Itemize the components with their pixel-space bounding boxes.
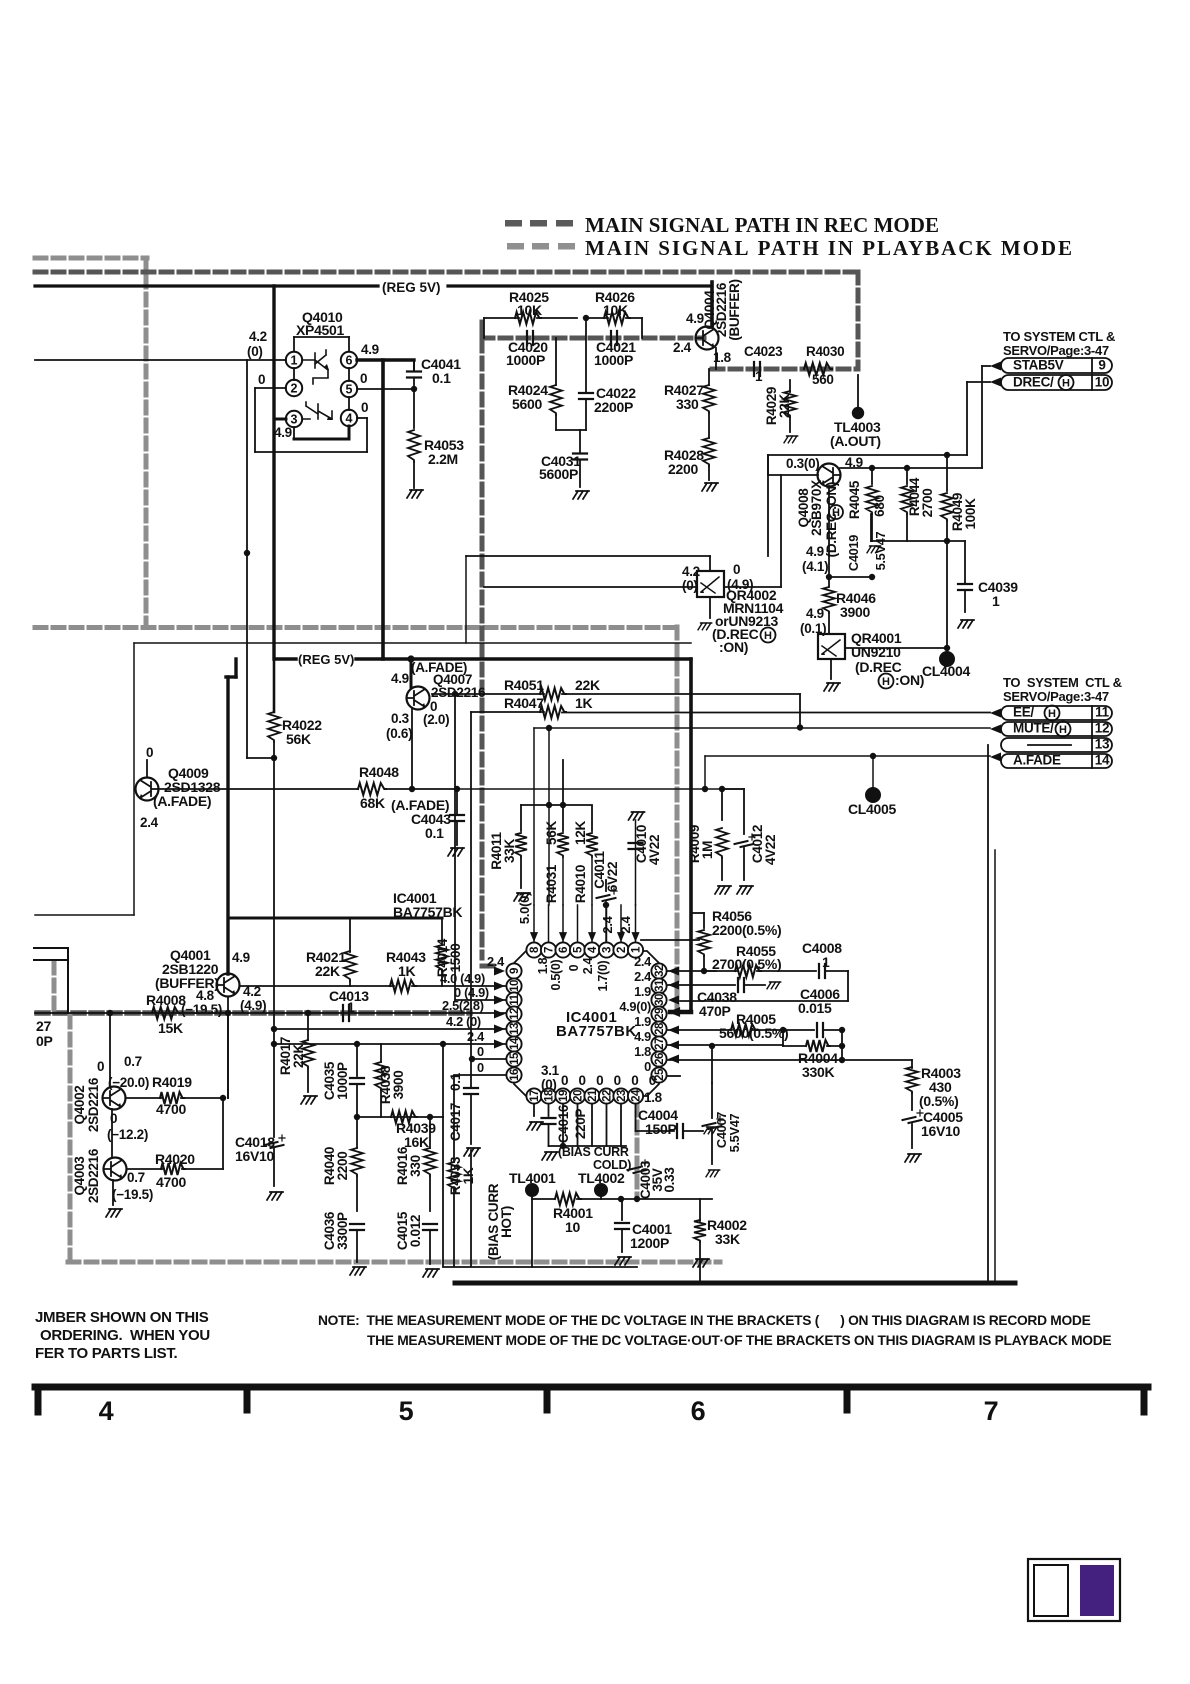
svg-text:5600P: 5600P <box>539 466 578 482</box>
svg-text:22: 22 <box>601 1090 613 1102</box>
svg-text:1: 1 <box>822 954 830 970</box>
svg-text:0.5(0): 0.5(0) <box>549 959 563 990</box>
svg-text:0.1: 0.1 <box>432 370 451 386</box>
svg-text:56K: 56K <box>286 731 311 747</box>
svg-text:330: 330 <box>408 1155 423 1177</box>
svg-text:1.8: 1.8 <box>634 1044 651 1059</box>
svg-text:C4019: C4019 <box>846 535 861 571</box>
svg-text:MUTE/: MUTE/ <box>1013 721 1054 736</box>
svg-text:12: 12 <box>509 1008 521 1020</box>
svg-text:28: 28 <box>654 1022 666 1035</box>
svg-text:3.1: 3.1 <box>541 1063 560 1078</box>
svg-text:14: 14 <box>1095 753 1110 768</box>
svg-text:0: 0 <box>110 1111 117 1126</box>
svg-text:330K: 330K <box>802 1064 834 1080</box>
svg-text:33K: 33K <box>715 1231 740 1247</box>
svg-text:ORDERING. WHEN YOU: ORDERING. WHEN YOU <box>40 1327 210 1344</box>
svg-text:330: 330 <box>676 396 699 412</box>
svg-text:0: 0 <box>258 372 265 387</box>
svg-text:11: 11 <box>509 993 521 1005</box>
svg-text:4.2 (0): 4.2 (0) <box>446 1014 481 1029</box>
svg-text:4V22: 4V22 <box>647 835 662 865</box>
svg-text:H: H <box>1062 378 1070 390</box>
svg-text:6: 6 <box>558 947 570 953</box>
svg-text:0: 0 <box>567 964 581 971</box>
svg-text:0: 0 <box>477 1044 484 1059</box>
svg-text:7: 7 <box>543 947 555 953</box>
svg-text:4.9: 4.9 <box>361 342 379 357</box>
svg-text:10: 10 <box>1095 375 1109 390</box>
svg-text:(−12.2): (−12.2) <box>107 1127 148 1142</box>
svg-text:27: 27 <box>654 1038 666 1050</box>
svg-text:0.1: 0.1 <box>425 825 444 841</box>
svg-text:470P: 470P <box>699 1003 731 1019</box>
svg-text:4.2: 4.2 <box>249 329 267 344</box>
svg-text:(0.6): (0.6) <box>386 726 412 741</box>
svg-text:UN9210: UN9210 <box>851 644 901 660</box>
svg-text:1200P: 1200P <box>630 1235 669 1251</box>
svg-text:0.015: 0.015 <box>798 1000 832 1016</box>
svg-text:22K: 22K <box>777 394 792 418</box>
svg-text:(0): (0) <box>541 1077 557 1092</box>
svg-text:32: 32 <box>654 965 666 977</box>
svg-text:30: 30 <box>654 994 666 1006</box>
svg-text:(A.OUT): (A.OUT) <box>830 433 881 449</box>
svg-text:1K: 1K <box>461 1167 476 1184</box>
svg-text:31: 31 <box>654 979 666 992</box>
svg-text:THE MEASUREMENT MODE OF THE DC: THE MEASUREMENT MODE OF THE DC VOLTAGE·O… <box>367 1333 1111 1348</box>
svg-text:21: 21 <box>587 1089 599 1102</box>
svg-text:0: 0 <box>146 745 153 760</box>
svg-text:9: 9 <box>1098 358 1105 373</box>
svg-text:SERVO/Page:3-47: SERVO/Page:3-47 <box>1003 689 1109 704</box>
svg-text:2: 2 <box>291 382 298 396</box>
svg-text:R4045: R4045 <box>847 480 862 519</box>
svg-text:33K: 33K <box>502 839 517 863</box>
svg-text:STAB5V: STAB5V <box>1013 358 1064 373</box>
svg-text:5: 5 <box>399 1396 414 1426</box>
svg-text:100K: 100K <box>963 498 978 530</box>
svg-text:(0): (0) <box>682 578 698 593</box>
svg-text:6: 6 <box>691 1396 706 1426</box>
svg-text:EE/: EE/ <box>1013 705 1034 720</box>
svg-text:1.7(0): 1.7(0) <box>596 960 610 991</box>
svg-text:H: H <box>764 630 772 642</box>
svg-text:4.9(0): 4.9(0) <box>619 999 651 1014</box>
svg-text:2200: 2200 <box>335 1152 350 1181</box>
svg-text:4.9: 4.9 <box>806 606 824 621</box>
svg-text:1.9: 1.9 <box>634 1014 651 1029</box>
svg-text:2SD2216: 2SD2216 <box>86 1148 101 1203</box>
svg-text:680: 680 <box>872 495 887 517</box>
svg-text:2.4: 2.4 <box>618 915 633 933</box>
svg-text:16: 16 <box>509 1069 521 1081</box>
svg-text:1K: 1K <box>398 963 415 979</box>
svg-text:(4.1): (4.1) <box>802 559 828 574</box>
svg-text:16V10: 16V10 <box>921 1123 960 1139</box>
svg-text:0.7: 0.7 <box>127 1170 145 1185</box>
svg-text:13: 13 <box>509 1023 521 1035</box>
svg-text:5600: 5600 <box>512 396 542 412</box>
svg-text:H: H <box>1059 724 1067 736</box>
svg-text:TO SYSTEM CTL &: TO SYSTEM CTL & <box>1003 675 1122 690</box>
svg-text:1M: 1M <box>700 841 715 859</box>
svg-text:Q4003: Q4003 <box>72 1156 87 1196</box>
svg-text:R4019: R4019 <box>152 1074 192 1090</box>
svg-text:12K: 12K <box>573 821 588 845</box>
svg-text:4.9: 4.9 <box>806 544 824 559</box>
svg-text:2.4: 2.4 <box>140 815 159 830</box>
svg-text:0 0 0 0 0 0: 0 0 0 0 0 0 <box>561 1073 656 1088</box>
svg-text:6: 6 <box>346 354 353 368</box>
svg-text:0.3: 0.3 <box>391 711 410 726</box>
svg-text:(−19.5): (−19.5) <box>181 1002 222 1017</box>
svg-text:15K: 15K <box>158 1020 183 1036</box>
svg-text:(REG 5V): (REG 5V) <box>382 280 441 295</box>
svg-text:4.8: 4.8 <box>196 988 215 1003</box>
svg-text:7: 7 <box>984 1396 999 1426</box>
svg-text:XP4501: XP4501 <box>296 322 345 338</box>
svg-text:0: 0 <box>477 1060 484 1075</box>
svg-text:H: H <box>882 676 890 688</box>
svg-text::ON): :ON) <box>719 639 748 655</box>
svg-text:FER TO PARTS LIST.: FER TO PARTS LIST. <box>35 1345 178 1362</box>
svg-text:C4016: C4016 <box>556 1104 571 1143</box>
svg-text:10K: 10K <box>603 302 628 318</box>
svg-text:4.9: 4.9 <box>391 671 409 686</box>
svg-text:1: 1 <box>992 593 1000 609</box>
svg-text:1000P: 1000P <box>506 352 545 368</box>
svg-text:0.3(0): 0.3(0) <box>786 456 819 471</box>
svg-text:1.8: 1.8 <box>644 1090 663 1105</box>
svg-text:2.4: 2.4 <box>487 954 505 969</box>
svg-text:1K: 1K <box>575 695 592 711</box>
svg-text:5.5V47: 5.5V47 <box>873 531 888 570</box>
svg-text:0.7: 0.7 <box>124 1054 142 1069</box>
svg-text:2.4: 2.4 <box>673 340 692 355</box>
svg-text:C4023: C4023 <box>744 344 783 359</box>
svg-text:22K: 22K <box>575 677 600 693</box>
svg-text:3: 3 <box>601 947 613 953</box>
svg-text:2SD2216: 2SD2216 <box>431 685 486 700</box>
svg-text:27: 27 <box>36 1018 51 1034</box>
svg-text:(BIAS CURR: (BIAS CURR <box>558 1145 629 1159</box>
svg-text:0P: 0P <box>36 1033 53 1049</box>
svg-text:H: H <box>1048 708 1056 720</box>
svg-text:(−19.5): (−19.5) <box>112 1187 153 1202</box>
svg-text:6V22: 6V22 <box>605 862 620 892</box>
svg-text:2: 2 <box>616 947 628 953</box>
svg-text:R4048: R4048 <box>359 764 399 780</box>
svg-text:2SB970X: 2SB970X <box>809 480 824 536</box>
svg-text:24: 24 <box>630 1089 642 1102</box>
svg-text:HOT): HOT) <box>499 1206 514 1238</box>
svg-text:560: 560 <box>812 372 834 387</box>
svg-text:MAIN SIGNAL PATH IN REC MODE: MAIN SIGNAL PATH IN REC MODE <box>585 213 939 237</box>
svg-text:4: 4 <box>346 412 353 426</box>
svg-text:1.8: 1.8 <box>536 957 550 974</box>
svg-text:10: 10 <box>509 980 521 992</box>
svg-text:DREC/: DREC/ <box>1013 375 1054 390</box>
svg-text:22K: 22K <box>291 1044 306 1068</box>
svg-text:4V22: 4V22 <box>763 835 778 865</box>
svg-text:1000P: 1000P <box>594 352 633 368</box>
svg-text:220P: 220P <box>573 1109 588 1140</box>
svg-text:14: 14 <box>509 1037 521 1050</box>
svg-text:4.9: 4.9 <box>634 1029 651 1044</box>
svg-text:11: 11 <box>1095 705 1109 720</box>
svg-text:3900: 3900 <box>391 1071 406 1100</box>
svg-text:4700: 4700 <box>156 1174 186 1190</box>
svg-text:Q4002: Q4002 <box>72 1085 87 1124</box>
svg-text:BA7757BK: BA7757BK <box>556 1023 637 1040</box>
svg-text:1: 1 <box>755 369 763 384</box>
svg-text:2.4: 2.4 <box>600 915 615 933</box>
svg-text:10K: 10K <box>517 302 542 318</box>
svg-text:1.9: 1.9 <box>634 984 651 999</box>
svg-text:1500: 1500 <box>448 944 463 973</box>
svg-text:68K: 68K <box>360 795 385 811</box>
svg-text:R4051: R4051 <box>504 677 544 693</box>
svg-text:0: 0 <box>360 371 367 386</box>
svg-text:C4017: C4017 <box>448 1103 463 1141</box>
svg-text:(0): (0) <box>247 344 263 359</box>
svg-text:17: 17 <box>529 1090 541 1102</box>
svg-text:2.4: 2.4 <box>634 969 652 984</box>
svg-text:29: 29 <box>654 1008 666 1020</box>
svg-text:0.012: 0.012 <box>408 1215 423 1247</box>
svg-text:5: 5 <box>346 383 353 397</box>
svg-text:3300P: 3300P <box>335 1212 350 1250</box>
svg-text:0: 0 <box>97 1059 104 1074</box>
svg-text:(0.5%): (0.5%) <box>919 1093 958 1109</box>
svg-text:2.4: 2.4 <box>581 957 595 974</box>
svg-text:1: 1 <box>291 354 298 368</box>
svg-text:23: 23 <box>616 1090 628 1102</box>
svg-text:26: 26 <box>654 1053 666 1065</box>
svg-text:R4031: R4031 <box>544 864 559 903</box>
svg-text:COLD): COLD) <box>593 1158 631 1172</box>
svg-text:2700(0.5%): 2700(0.5%) <box>712 956 781 972</box>
svg-text:4.0 (4.9): 4.0 (4.9) <box>440 971 485 986</box>
svg-text:2.4: 2.4 <box>467 1029 485 1044</box>
svg-text:R4010: R4010 <box>573 865 588 903</box>
svg-text:0: 0 <box>733 562 740 577</box>
svg-text:12: 12 <box>1095 721 1109 736</box>
svg-text:2700: 2700 <box>920 489 935 518</box>
svg-text:5.5V47: 5.5V47 <box>727 1113 742 1152</box>
svg-text:150P: 150P <box>645 1121 677 1137</box>
svg-text:5600(0.5%): 5600(0.5%) <box>719 1025 788 1041</box>
svg-text:0.33: 0.33 <box>662 1167 677 1193</box>
svg-text:2.2M: 2.2M <box>428 451 458 467</box>
svg-text:R4008: R4008 <box>146 992 186 1008</box>
svg-text::ON): :ON) <box>895 672 924 688</box>
svg-text:SERVO/Page:3-47: SERVO/Page:3-47 <box>1003 343 1109 358</box>
svg-text:2200P: 2200P <box>594 399 633 415</box>
svg-text:NOTE: THE MEASUREMENT MODE OF: NOTE: THE MEASUREMENT MODE OF THE DC VOL… <box>318 1313 1091 1328</box>
svg-text:13: 13 <box>1095 737 1110 752</box>
svg-text:20: 20 <box>572 1090 584 1102</box>
svg-text:5.0(0): 5.0(0) <box>517 892 532 924</box>
svg-text:4.9: 4.9 <box>232 950 250 965</box>
svg-text:4: 4 <box>99 1396 114 1426</box>
svg-text:(2.0): (2.0) <box>423 712 449 727</box>
svg-text:10: 10 <box>565 1219 580 1235</box>
svg-text:TO SYSTEM CTL &: TO SYSTEM CTL & <box>1003 329 1115 344</box>
svg-text:A.FADE: A.FADE <box>1013 753 1061 768</box>
svg-text:R4047: R4047 <box>504 695 544 711</box>
svg-text:2200: 2200 <box>668 461 698 477</box>
svg-text:1000P: 1000P <box>335 1062 350 1100</box>
svg-text:2200(0.5%): 2200(0.5%) <box>712 922 781 938</box>
svg-text:(−20.0): (−20.0) <box>108 1075 149 1090</box>
svg-text:0: 0 <box>361 400 368 415</box>
svg-text:CL4004: CL4004 <box>922 663 971 679</box>
svg-text:4.9: 4.9 <box>274 425 292 440</box>
svg-text:3900: 3900 <box>840 604 870 620</box>
svg-text:JMBER SHOWN ON THIS: JMBER SHOWN ON THIS <box>35 1309 209 1326</box>
svg-text:2.4: 2.4 <box>634 954 652 969</box>
svg-text:0: 0 <box>644 1059 651 1074</box>
svg-text:19: 19 <box>558 1090 570 1102</box>
svg-text:56K: 56K <box>544 821 559 845</box>
svg-text:16V10: 16V10 <box>235 1148 274 1164</box>
svg-text:(4.9): (4.9) <box>240 998 266 1013</box>
svg-text:22K: 22K <box>315 963 340 979</box>
svg-text:(REG 5V): (REG 5V) <box>298 652 354 667</box>
svg-text:2SD2216: 2SD2216 <box>86 1077 101 1132</box>
svg-text:CL4005: CL4005 <box>848 801 897 817</box>
svg-text:(BUFFER): (BUFFER) <box>727 279 742 340</box>
svg-text:(A.FADE): (A.FADE) <box>153 793 211 809</box>
svg-text:R4030: R4030 <box>806 344 844 359</box>
svg-text:15: 15 <box>509 1052 521 1065</box>
svg-text::ON): :ON) <box>824 482 839 510</box>
svg-text:9: 9 <box>509 968 521 974</box>
